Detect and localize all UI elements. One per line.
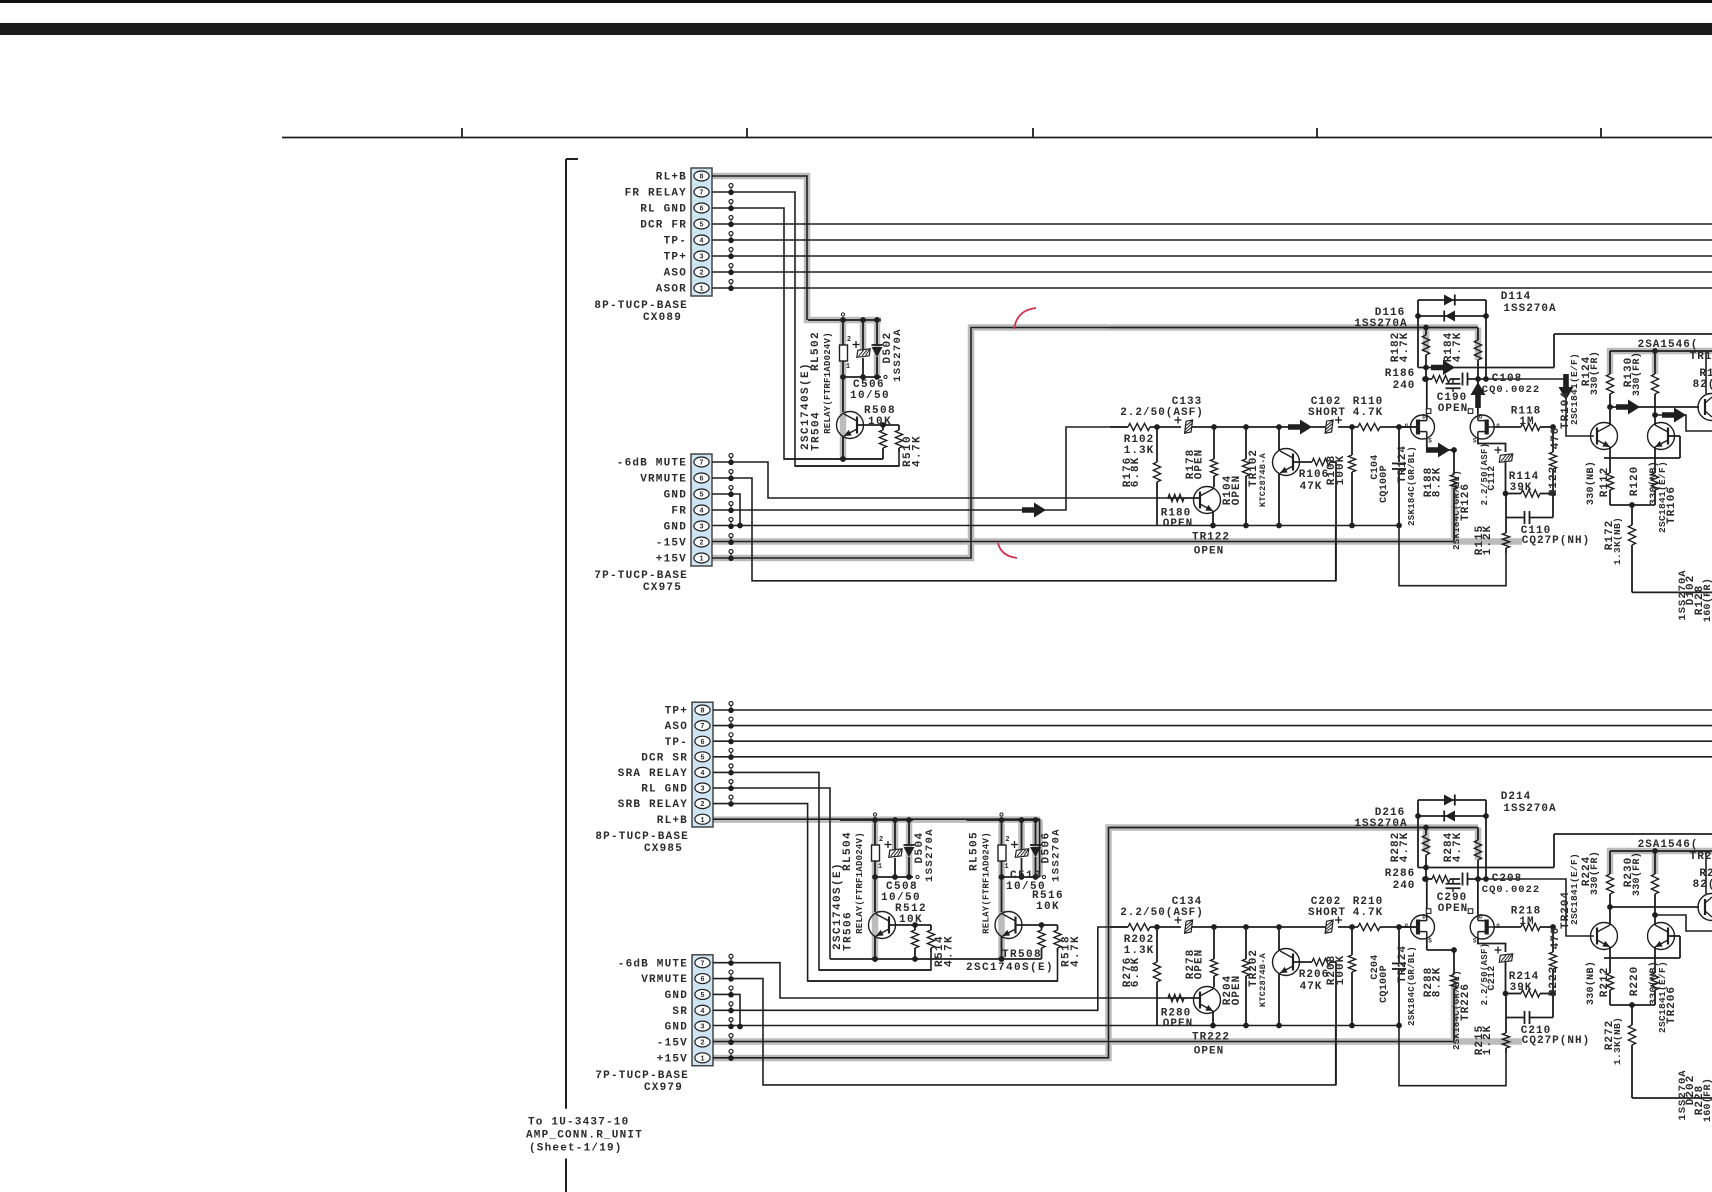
svg-text:47K: 47K (1300, 981, 1323, 993)
gray trace output emitter bottom (1610, 851, 1712, 874)
svg-text:8P-TUCP-BASE: 8P-TUCP-BASE (595, 831, 689, 843)
transistor TR222 (1194, 987, 1221, 1014)
svg-text:TP+: TP+ (665, 706, 688, 718)
svg-text:OPEN: OPEN (1163, 518, 1193, 530)
wire ASOR (CX089-1) (712, 287, 1712, 289)
wire GND rail top (CX975-3) (712, 525, 1399, 527)
wire TR126 drain (1477, 879, 1479, 914)
svg-text:RELAY(FTRF1AD024V): RELAY(FTRF1AD024V) (823, 332, 833, 434)
pin contact marks CX089 (729, 184, 733, 188)
svg-text:TP+: TP+ (664, 252, 687, 264)
red annotation arc upper (1014, 308, 1036, 329)
resistor R110 (1358, 423, 1380, 430)
resistor R280 (1168, 994, 1184, 1001)
resistor R122 (1552, 427, 1554, 452)
transistor TR104 (1591, 423, 1618, 450)
capacitor C108 (1462, 373, 1464, 386)
svg-text:DCR FR: DCR FR (640, 220, 687, 232)
svg-text:1SS270A: 1SS270A (892, 328, 904, 382)
svg-text:1: 1 (846, 363, 850, 371)
jfet TR126 (1470, 415, 1494, 439)
connector CX975 pin 5 (GND) (694, 489, 709, 499)
flow arrow TR106 collector out (1662, 408, 1686, 423)
wire -15V top (CX975-2) (712, 541, 1454, 543)
transistor 2SA1546 output (edge) (1698, 894, 1712, 921)
resistor R112 (1609, 458, 1611, 473)
wire TR126 source to C112 (1478, 439, 1506, 452)
gray trace R184 feed (1475, 328, 1482, 361)
svg-text:R112: R112 (1599, 467, 1611, 497)
gray trace R288 wrap (1451, 987, 1458, 1042)
svg-text:1SS270A: 1SS270A (924, 828, 936, 882)
resistor R118 (1521, 423, 1540, 430)
relay RL504 bus and lower node (840, 819, 913, 821)
resistor R120 (1654, 447, 1656, 473)
svg-text:KTC2874B-A: KTC2874B-A (1258, 452, 1268, 507)
zone tick 1 (461, 128, 463, 138)
svg-text:D: D (1422, 914, 1426, 921)
connector CX979 body (692, 955, 713, 1066)
gray trace D504 branch (906, 820, 913, 877)
connector CX089 pin 3 (TP+) (694, 251, 709, 261)
svg-text:TR1: TR1 (1690, 351, 1712, 363)
resistor R210 (1358, 923, 1380, 930)
capacitor C133 (1185, 420, 1193, 433)
svg-text:SHORT: SHORT (1308, 407, 1346, 419)
transistor TR206 (1648, 923, 1675, 950)
svg-text:TR2: TR2 (1690, 851, 1712, 863)
connector CX089 pin 4 (TP-) (694, 235, 709, 245)
svg-text:4: 4 (700, 770, 704, 778)
wire C108 row to TR104 base (1486, 379, 1594, 436)
connector CX089 pin 8 (RL+B) (694, 171, 709, 181)
wire C104 ground jog (1399, 526, 1506, 586)
svg-text:4.7K: 4.7K (944, 935, 956, 967)
wire RL GND (CX089-6) (712, 208, 883, 459)
diode loop verticals (1417, 800, 1419, 868)
capacitor C104 (1398, 427, 1400, 462)
connector CX985 body (692, 702, 713, 827)
connector CX985 pin 2 (SRB RELAY) (695, 799, 710, 809)
pin contact marks CX975 (729, 454, 733, 458)
svg-text:4.7K: 4.7K (1452, 832, 1464, 862)
wire TR226 source to C212 (1478, 939, 1506, 952)
svg-text:CQ27P(NH): CQ27P(NH) (1522, 1035, 1590, 1047)
svg-text:6: 6 (699, 206, 703, 214)
svg-text:6: 6 (700, 739, 704, 747)
svg-text:1SS270A: 1SS270A (1503, 803, 1556, 815)
svg-text:8.2K: 8.2K (1432, 967, 1444, 997)
resistor R212 (1609, 958, 1611, 973)
svg-text:OPEN: OPEN (1231, 475, 1243, 505)
wire ASO (CX089-2) (712, 271, 1712, 273)
svg-text:2: 2 (699, 270, 703, 278)
svg-text:CQ0.0022: CQ0.0022 (1482, 384, 1540, 396)
gray trace RL504 coil (872, 820, 879, 959)
resistor R214 (1506, 993, 1521, 995)
svg-text:1: 1 (700, 1055, 704, 1063)
gray trace R230 feed (1652, 851, 1659, 874)
resistor R218 (1521, 923, 1540, 930)
svg-text:CQ27P(NH): CQ27P(NH) (1522, 535, 1590, 547)
gray trace R182 feed (1423, 328, 1430, 353)
wire TR104 emitter row (1604, 457, 1680, 459)
wire rail riser to output row (1553, 834, 1555, 868)
svg-text:RELAY(FTRF1AD024V): RELAY(FTRF1AD024V) (982, 832, 992, 934)
relay RL505 coil (1001, 820, 1003, 845)
svg-text:R220: R220 (1629, 966, 1641, 996)
resistor R102 (1128, 423, 1150, 430)
diode D216 (1418, 815, 1486, 817)
capacitor C210 (1505, 994, 1507, 1018)
svg-text:6.8K: 6.8K (1130, 457, 1142, 487)
wire DCR SR (CX985-5) (713, 756, 1712, 758)
wire ASO (CX985-7) (713, 725, 1712, 727)
connector CX979 pin 1 (+15V) (695, 1053, 710, 1063)
capacitor C508 (894, 820, 896, 849)
connector CX985 pin 1 (RL+B) (695, 814, 710, 824)
svg-text:1.2K: 1.2K (1482, 525, 1494, 555)
connector CX089 pin 1 (ASOR) (694, 283, 709, 293)
flow arrow TR126 drain up (1471, 382, 1486, 408)
svg-text:1SS270A: 1SS270A (1503, 303, 1556, 315)
svg-text:D: D (1479, 914, 1483, 921)
connector CX089 pin 5 (DCR FR) (694, 219, 709, 229)
jfet TR224 (1411, 915, 1435, 939)
wire TR126 gate row (1494, 426, 1521, 428)
resistor R104 (1245, 427, 1247, 459)
svg-text:R222: R222 (1548, 966, 1560, 996)
transistor TR504 (842, 377, 844, 412)
svg-text:TR504: TR504 (811, 411, 823, 451)
connector CX979 pin 7 (-6dB MUTE) (695, 958, 710, 968)
svg-text:KTC2874B-A: KTC2874B-A (1258, 952, 1268, 1007)
gray trace R188 wrap (1451, 487, 1458, 542)
red annotation arc lower (998, 543, 1017, 558)
svg-text:240: 240 (1393, 380, 1416, 392)
svg-text:1: 1 (699, 556, 703, 564)
svg-text:GND: GND (664, 522, 687, 534)
svg-text:3: 3 (699, 524, 703, 532)
svg-text:CQ100P: CQ100P (1379, 465, 1390, 503)
left border line lower (565, 1159, 567, 1192)
svg-text:2.2/50(ASF): 2.2/50(ASF) (1120, 907, 1204, 919)
resistor R114 (1506, 493, 1521, 495)
wire TR124 drain to R186 row (1426, 379, 1428, 414)
svg-text:OPEN: OPEN (1194, 449, 1206, 479)
diode D506 (1035, 820, 1037, 845)
svg-text:ASO: ASO (665, 721, 688, 733)
svg-text:100K: 100K (1335, 955, 1347, 985)
connector CX985 pin 7 (ASO) (695, 721, 710, 731)
rail emitter resistors common (1610, 1004, 1655, 1006)
svg-text:R286: R286 (1385, 868, 1415, 880)
rail emitter resistors common (1610, 504, 1655, 506)
capacitor C190 OPEN (1452, 379, 1454, 383)
wire mute collector to VRMUTE riser (1335, 462, 1337, 581)
wire R172 bottom out (1632, 591, 1712, 593)
svg-text:4.7K: 4.7K (912, 435, 924, 467)
wire RL+B bottom bus (CX985-1) (713, 819, 1040, 877)
svg-text:160(FR): 160(FR) (1702, 1078, 1712, 1122)
zone tick 4 (1316, 128, 1318, 138)
wire TR106 collector (1654, 915, 1656, 925)
wire TR124 source to R188 (1426, 439, 1428, 450)
svg-text:RL502: RL502 (810, 331, 822, 371)
svg-text:2SC1740S(E): 2SC1740S(E) (966, 962, 1054, 974)
svg-text:OPEN: OPEN (1163, 1018, 1193, 1030)
transistor TR122 (1194, 487, 1221, 514)
svg-text:4: 4 (700, 1008, 704, 1016)
svg-text:1.3K: 1.3K (1124, 945, 1154, 957)
svg-text:6.8K: 6.8K (1130, 957, 1142, 987)
svg-text:10K: 10K (1036, 901, 1060, 913)
wire SRA RELAY (CX985-4) (713, 772, 931, 970)
resistor R172 (1631, 505, 1633, 525)
capacitor C290 OPEN (1452, 879, 1454, 883)
jfet TR124 (1411, 415, 1435, 439)
svg-text:5: 5 (700, 754, 704, 762)
svg-text:D: D (1479, 414, 1483, 421)
svg-text:OPEN: OPEN (1194, 949, 1206, 979)
svg-text:DCR SR: DCR SR (641, 752, 688, 764)
svg-text:TR226: TR226 (1460, 983, 1472, 1021)
connector CX089 pin 7 (FR RELAY) (694, 187, 709, 197)
zone tick 5 (1600, 128, 1602, 138)
resistor R282 (1425, 828, 1427, 836)
svg-text:240: 240 (1393, 880, 1416, 892)
wire GND (CX979-5) (713, 994, 740, 1025)
svg-text:4.7K: 4.7K (1452, 332, 1464, 362)
wire RL+B (CX089-8) to relay bus (712, 176, 807, 320)
wire -6dB MUTE (CX975-7) (712, 462, 1168, 498)
capacitor C204 (1398, 927, 1400, 962)
gray trace D506 branch (1032, 820, 1039, 877)
svg-text:1: 1 (699, 286, 703, 294)
svg-text:4.7K: 4.7K (1399, 832, 1411, 862)
diode D214 (1418, 799, 1486, 801)
gray trace R284 feed (1475, 828, 1482, 861)
svg-text:R186: R186 (1385, 368, 1415, 380)
svg-text:CX089: CX089 (643, 312, 682, 324)
svg-text:GND: GND (665, 990, 688, 1002)
resistor R130 (1654, 351, 1656, 374)
svg-text:4.7K: 4.7K (1353, 907, 1383, 919)
svg-text:10/50: 10/50 (850, 390, 890, 402)
svg-text:2SC1841(E/F): 2SC1841(E/F) (1569, 853, 1580, 925)
wire DCR FR (CX089-5) (712, 223, 1712, 225)
svg-text:7: 7 (700, 723, 704, 731)
gray trace C508 branch (892, 820, 899, 852)
wire mute collector to VRMUTE riser (1335, 962, 1337, 1085)
svg-text:RL+B: RL+B (657, 815, 688, 827)
svg-text:To 1U-3437-10: To 1U-3437-10 (528, 1117, 629, 1129)
connector CX979 pin 6 (VRMUTE) (695, 974, 710, 984)
gray trace -15V stub right (1454, 538, 1522, 545)
title bar (0, 23, 1712, 35)
svg-text:2SA1546(: 2SA1546( (1638, 339, 1699, 351)
svg-text:330(FR): 330(FR) (1631, 352, 1643, 396)
svg-text:FR RELAY: FR RELAY (625, 188, 687, 200)
connector CX975 pin 7 (-6dB MUTE) (694, 457, 709, 467)
svg-text:GND: GND (665, 1022, 688, 1034)
gray trace bus right wrap (1036, 820, 1043, 877)
gray trace RL+B top (712, 176, 881, 320)
capacitor C212 (1499, 954, 1512, 963)
svg-text:SR: SR (672, 1006, 688, 1018)
svg-text:FR: FR (671, 506, 687, 518)
svg-text:1: 1 (878, 863, 882, 871)
pin contact marks CX985 (729, 702, 733, 706)
svg-text:-6dB MUTE: -6dB MUTE (617, 458, 687, 470)
gray trace R282 feed (1423, 828, 1430, 853)
wire +15V feed row (1110, 827, 1478, 829)
resistor R215 (1505, 1018, 1507, 1034)
wire main signal row (1110, 426, 1128, 428)
svg-text:330(FR): 330(FR) (1589, 851, 1601, 895)
svg-text:8: 8 (699, 174, 703, 182)
relay rails top (784, 458, 883, 460)
svg-text:1.3K(NB): 1.3K(NB) (1612, 517, 1623, 565)
resistor R106 (1293, 461, 1312, 463)
connector CX975 pin 4 (FR) (694, 505, 709, 515)
svg-text:47K: 47K (1300, 481, 1323, 493)
wire TR106 collector (1654, 415, 1656, 425)
svg-text:OPEN: OPEN (1438, 903, 1468, 915)
svg-text:OPEN: OPEN (1231, 975, 1243, 1005)
wire SRB RELAY (CX985-2) (713, 804, 1058, 981)
svg-text:4.7K: 4.7K (1399, 332, 1411, 362)
gray trace RL+B bottom bus (712, 816, 1040, 823)
svg-text:7: 7 (699, 190, 703, 198)
wire R172 bottom out (1632, 1097, 1712, 1099)
wire TP+ (CX089-3) (712, 255, 1712, 257)
capacitor C510 (1021, 820, 1023, 849)
wire VRMUTE (CX975-6) (712, 478, 1336, 581)
resistor R510 (898, 425, 900, 430)
resistor R284 (1477, 828, 1479, 841)
transistor TR106 (1648, 423, 1675, 450)
capacitor C110 (1505, 494, 1507, 518)
resistor R108 (1351, 427, 1353, 455)
svg-text:330(NB): 330(NB) (1585, 461, 1597, 505)
wire FR signal (CX975-4) (712, 427, 1128, 510)
svg-text:-6dB MUTE: -6dB MUTE (618, 958, 688, 970)
svg-text:C112: C112 (1487, 465, 1498, 490)
svg-text:CQ0.0022: CQ0.0022 (1482, 884, 1540, 896)
relay rails bottom (830, 958, 1042, 960)
wire +15V feed row (1110, 327, 1478, 329)
svg-text:D214: D214 (1501, 791, 1531, 803)
svg-text:CX985: CX985 (644, 843, 683, 855)
svg-text:1.3K: 1.3K (1124, 445, 1154, 457)
connector CX975 pin 1 (+15V) (694, 553, 709, 563)
gray trace +15V top (712, 328, 1478, 559)
svg-text:1: 1 (1004, 863, 1008, 871)
svg-text:330(FR): 330(FR) (1631, 852, 1643, 896)
svg-text:5: 5 (699, 222, 703, 230)
svg-text:10K: 10K (868, 416, 892, 428)
svg-text:D114: D114 (1501, 291, 1531, 303)
svg-text:4: 4 (699, 508, 703, 516)
junction GND pins join bottom (737, 1024, 743, 1030)
svg-text:2SC1841(E/F): 2SC1841(E/F) (1569, 353, 1580, 425)
resistor R206 (1293, 961, 1312, 963)
svg-text:4.7K: 4.7K (1070, 935, 1082, 967)
wire FR RELAY (CX089-7) (712, 192, 899, 466)
svg-text:4.7K: 4.7K (1353, 407, 1383, 419)
wire rail riser to output row (1553, 334, 1555, 368)
svg-text:3: 3 (699, 254, 703, 262)
svg-text:RL505: RL505 (969, 831, 981, 871)
svg-text:82(: 82( (1693, 879, 1712, 891)
resistor R182 (1425, 328, 1427, 336)
svg-text:R120: R120 (1629, 466, 1641, 496)
resistor R288 (1453, 950, 1455, 975)
resistor R124 (1609, 351, 1611, 374)
svg-text:2: 2 (700, 1040, 704, 1048)
resistor R204 (1245, 927, 1247, 959)
flow arrow before C102 (1288, 420, 1312, 435)
resistor R176 (1156, 427, 1158, 462)
svg-text:1.3K(NB): 1.3K(NB) (1612, 1017, 1623, 1065)
svg-text:ASO: ASO (664, 268, 687, 280)
junction GND pins join top (737, 523, 743, 529)
svg-text:7: 7 (700, 960, 704, 968)
capacitor C134 (1185, 920, 1193, 933)
svg-text:8P-TUCP-BASE: 8P-TUCP-BASE (594, 300, 688, 312)
connector CX975 pin 2 (-15V) (694, 537, 709, 547)
svg-text:R122: R122 (1548, 466, 1560, 496)
svg-text:1M: 1M (1519, 916, 1534, 928)
capacitor C506 (862, 320, 864, 349)
svg-text:1.2K: 1.2K (1482, 1025, 1494, 1055)
resistor R516 (1016, 924, 1058, 926)
connector CX985 pin 6 (TP-) (695, 736, 710, 746)
wire TR104 emitter row (1604, 957, 1680, 959)
svg-text:(Sheet-1/19): (Sheet-1/19) (529, 1143, 623, 1155)
flow arrow TR104 collector out (1616, 400, 1640, 415)
jfet TR226 (1470, 915, 1494, 939)
connector CX985 pin 5 (DCR SR) (695, 752, 710, 762)
svg-text:C212: C212 (1487, 965, 1498, 990)
pin contact marks CX979 (729, 954, 733, 958)
wire TR104 collector row (1607, 904, 1613, 910)
svg-text:160(FR): 160(FR) (1702, 578, 1712, 622)
svg-text:6: 6 (700, 976, 704, 984)
svg-text:1SS270A: 1SS270A (1354, 818, 1407, 830)
diode D504 (908, 820, 910, 845)
svg-text:OPEN: OPEN (1194, 1046, 1224, 1058)
gray trace -15V stub right bottom (1454, 1038, 1522, 1045)
svg-text:SRB RELAY: SRB RELAY (618, 799, 688, 811)
transistor TR204 (1591, 923, 1618, 950)
svg-text:1M: 1M (1519, 416, 1534, 428)
svg-text:CX975: CX975 (643, 582, 682, 594)
svg-text:3: 3 (700, 1024, 704, 1032)
flow arrow TR124 source (1426, 443, 1450, 458)
resistor R222 (1552, 927, 1554, 952)
connector CX975 body (691, 454, 712, 566)
svg-text:1: 1 (700, 817, 704, 825)
left border line upper (565, 159, 567, 1109)
svg-text:330(FR): 330(FR) (1589, 351, 1601, 395)
capacitor C208 (1462, 873, 1464, 886)
connector CX979 pin 4 (SR) (695, 1005, 710, 1015)
connector CX979 pin 2 (-15V) (695, 1037, 710, 1047)
wire TR126 drain (1477, 379, 1479, 414)
svg-text:-15V: -15V (657, 1038, 688, 1050)
